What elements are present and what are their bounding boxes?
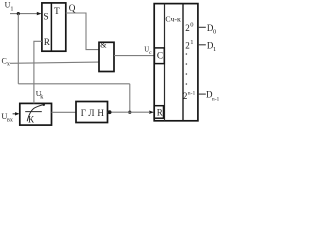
wire Q to AND gate	[66, 13, 99, 50]
comparator K box	[20, 103, 52, 125]
svg-text:2: 2	[185, 41, 190, 51]
svg-text:2: 2	[183, 91, 188, 101]
svg-text:1: 1	[213, 46, 216, 53]
trigger T (flip-flop) box	[42, 3, 66, 51]
svg-text:вх: вх	[7, 118, 13, 124]
junction dot at GLN output	[108, 110, 112, 114]
counter inner divider 1	[164, 4, 166, 121]
ellipsis dots counter outputs	[186, 53, 188, 55]
arrowhead into S	[37, 12, 42, 15]
wire Cx	[10, 62, 99, 63]
svg-text:ГЛН: ГЛН	[81, 108, 107, 118]
svg-text:n-1: n-1	[188, 90, 196, 96]
wire comparator to GLN	[52, 111, 77, 113]
comparator symbol threshold line	[25, 111, 42, 113]
junction dot on U1 wire	[17, 12, 20, 15]
pin R box	[154, 106, 163, 119]
junction dot on R net	[128, 111, 131, 114]
wire U1 vertical down	[17, 14, 19, 84]
svg-text:0: 0	[190, 21, 193, 28]
svg-text:&: &	[100, 41, 107, 50]
pin C box	[154, 48, 164, 64]
wire Uvx input arrow	[13, 113, 16, 115]
counter box Сч-к	[154, 4, 198, 121]
svg-text:К: К	[28, 114, 35, 124]
svg-text:T: T	[54, 7, 60, 17]
wire GLN side to counter R	[108, 111, 151, 113]
trigger divider	[50, 3, 52, 51]
wire Uk comparator to trigger R	[34, 41, 42, 103]
wire D0 stub	[198, 26, 206, 28]
GLN generator box	[76, 102, 108, 123]
wire gate output Uc to counter C	[114, 55, 154, 57]
comparator symbol curve	[27, 105, 43, 122]
wire D1 stub	[198, 44, 206, 46]
svg-text:1: 1	[190, 39, 193, 46]
wire horizontal y84	[18, 83, 130, 85]
svg-text:C: C	[157, 52, 163, 62]
svg-text:Q: Q	[69, 3, 76, 13]
svg-text:R: R	[157, 108, 163, 118]
wire vertical to R net	[129, 84, 131, 112]
svg-text:n-1: n-1	[212, 96, 220, 102]
svg-text:0: 0	[213, 29, 216, 36]
svg-text:R: R	[44, 37, 50, 47]
svg-text:S: S	[43, 13, 48, 23]
arrowhead into counter R	[149, 111, 154, 114]
svg-text:Сч-к: Сч-к	[165, 15, 181, 24]
wire U1 input to S	[10, 13, 39, 15]
wire Dn-1 stub	[198, 93, 206, 95]
and-gate U2 box	[99, 42, 114, 71]
counter inner divider 2	[182, 4, 184, 121]
svg-text:2: 2	[185, 23, 190, 33]
